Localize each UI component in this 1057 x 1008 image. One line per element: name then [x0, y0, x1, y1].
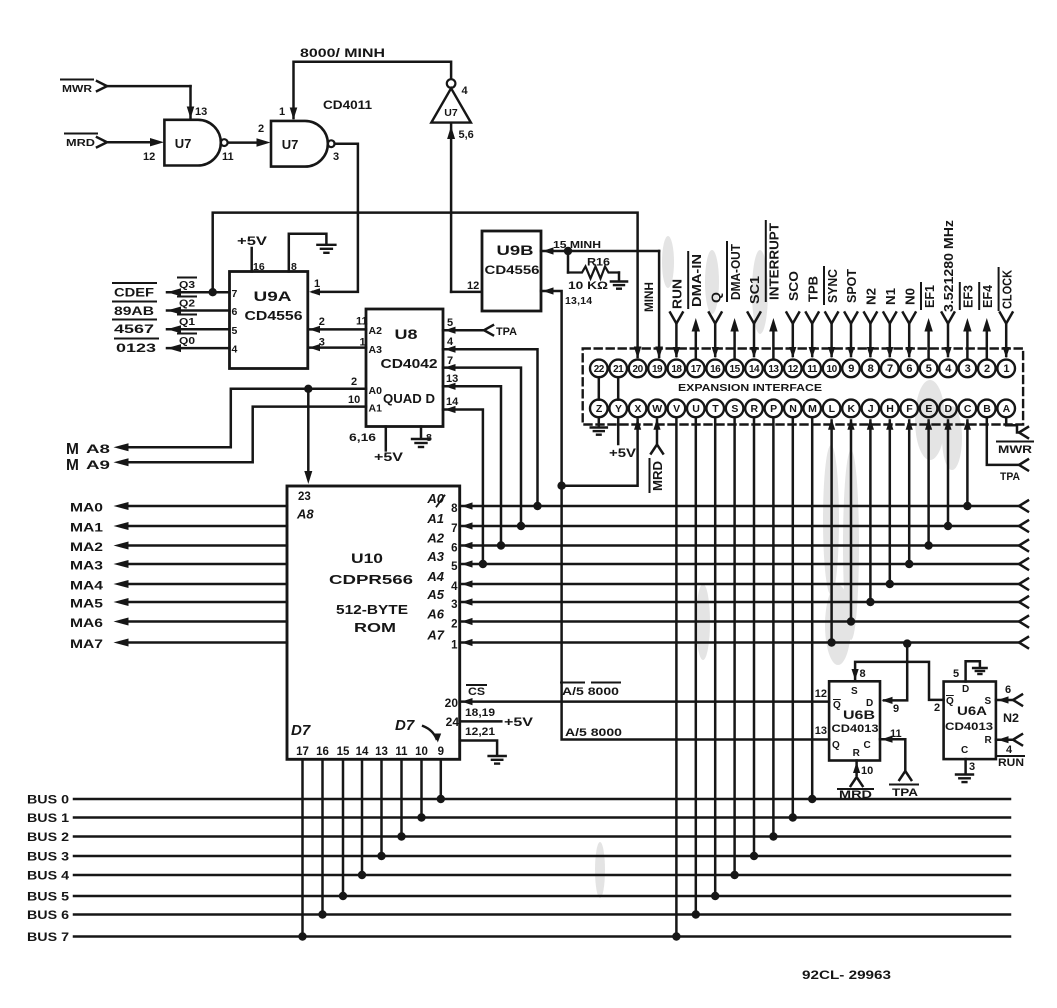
svg-text:5: 5: [232, 325, 238, 337]
power +5V at U9A pin 16: [237, 236, 267, 273]
svg-text:13: 13: [446, 373, 458, 385]
svg-text:U7: U7: [282, 137, 299, 152]
svg-text:P: P: [770, 403, 777, 415]
svg-text:512-BYTE: 512-BYTE: [336, 603, 408, 617]
svg-text:S: S: [731, 403, 738, 415]
connector pin V: [668, 400, 686, 418]
node junction Q3/8000 line: [209, 288, 217, 296]
svg-text:5: 5: [447, 317, 453, 329]
svg-text:2: 2: [351, 376, 357, 388]
svg-text:5: 5: [926, 363, 932, 375]
ic U9A CD4556: [230, 272, 308, 369]
svg-text:D: D: [866, 698, 873, 709]
svg-text:R: R: [985, 735, 993, 746]
wire BUS 3: [27, 852, 1010, 864]
svg-text:A5: A5: [426, 587, 444, 602]
svg-text:4: 4: [232, 344, 238, 356]
connector pin 21: [609, 360, 627, 378]
svg-text:A4: A4: [426, 569, 444, 584]
svg-text:14: 14: [356, 746, 369, 758]
ic U9B CD4556: [482, 231, 541, 311]
U10 pin 9 to BUS: [437, 746, 445, 803]
U10 pin 14 to BUS: [356, 746, 369, 879]
U9A output Q0 / 0123: [115, 334, 238, 356]
wire U10 A0 line to connector: [426, 491, 1028, 515]
svg-text:C: C: [961, 745, 968, 756]
svg-text:1: 1: [314, 278, 320, 290]
svg-text:12,21: 12,21: [465, 726, 495, 738]
ic U6B CD4013: [829, 681, 880, 760]
svg-text:EF4: EF4: [980, 284, 995, 308]
svg-text:A8: A8: [296, 507, 314, 522]
svg-text:6: 6: [906, 363, 912, 375]
svg-text:BUS 6: BUS 6: [27, 910, 69, 922]
svg-text:4: 4: [451, 581, 458, 593]
svg-text:A3: A3: [369, 344, 383, 356]
wire U6B pin 10 R to MRD: [838, 761, 873, 802]
svg-text:4: 4: [447, 336, 454, 348]
svg-text:MRD: MRD: [651, 461, 665, 491]
svg-text:MRD: MRD: [66, 137, 95, 149]
svg-text:W: W: [652, 403, 662, 415]
resistor R16 10K: [568, 251, 619, 292]
wire A7 to U6B pin 9 D: [882, 639, 912, 715]
connector pin 16: [706, 360, 724, 378]
svg-text:RUN: RUN: [670, 279, 685, 309]
ground at U6A pin 5 D: [953, 661, 987, 681]
svg-text:92CL- 29963: 92CL- 29963: [802, 970, 891, 982]
wire pin T to BUS 5: [711, 417, 719, 900]
ground at U6A pin 3 C: [956, 759, 975, 782]
svg-text:0123: 0123: [116, 343, 156, 355]
connector pin T: [706, 400, 724, 418]
wire pin 21 to pin Y: [617, 377, 620, 399]
svg-text:17: 17: [691, 364, 702, 375]
wire U6B pin 11 C to TPA: [880, 728, 918, 799]
svg-text:16: 16: [253, 261, 265, 273]
wire pin D to A1 line: [944, 419, 952, 531]
connector pin W: [648, 400, 666, 418]
connector pin 8: [862, 360, 880, 378]
svg-text:8000/ MINH: 8000/ MINH: [300, 48, 385, 60]
connector pin 6: [900, 360, 918, 378]
svg-text:N0: N0: [902, 288, 917, 305]
svg-text:EF1: EF1: [922, 285, 937, 308]
wire U10 to MA5: [70, 598, 287, 611]
svg-text:13: 13: [768, 364, 779, 375]
connector pin D: [939, 400, 957, 418]
connector pin 1: [997, 360, 1015, 378]
svg-text:Q1: Q1: [179, 316, 195, 328]
connector pin F: [900, 400, 918, 418]
signal N0 at pin 6: [902, 288, 917, 358]
svg-text:U: U: [692, 403, 699, 415]
label M A8: [66, 441, 111, 458]
connector pin 17: [687, 360, 705, 378]
svg-text:2: 2: [258, 123, 264, 135]
connector pin 14: [745, 360, 763, 378]
wire U8 pin4 to A0 line: [443, 336, 542, 510]
svg-text:13: 13: [375, 746, 388, 758]
svg-text:Q: Q: [832, 740, 840, 751]
ic U6A CD4013: [944, 682, 996, 760]
svg-text:8: 8: [291, 261, 297, 273]
svg-text:A2: A2: [426, 531, 444, 546]
connector pin 2: [978, 360, 996, 378]
connector pin U: [687, 400, 705, 418]
svg-text:1: 1: [451, 640, 458, 652]
label M A9: [66, 457, 111, 474]
wire pin J to A5 line: [866, 419, 874, 607]
svg-text:10: 10: [861, 765, 873, 777]
connector pin 3: [959, 360, 977, 378]
svg-text:RUN: RUN: [998, 757, 1024, 769]
wire U7 pin3 to U9A pin1: [309, 144, 358, 296]
svg-text:8: 8: [868, 363, 874, 375]
wire pin 22 to pin Z: [598, 377, 601, 399]
svg-text:+5V: +5V: [504, 717, 533, 729]
svg-text:A/5 8000: A/5 8000: [562, 686, 619, 698]
svg-text:X: X: [634, 403, 641, 415]
svg-text:1: 1: [1003, 363, 1009, 375]
wire pin N to BUS 1: [789, 417, 797, 822]
svg-text:3.521280 MHz: 3.521280 MHz: [941, 219, 956, 312]
connector pin A: [997, 400, 1015, 418]
wire pin K to A6 line: [847, 419, 855, 626]
svg-text:D7: D7: [291, 722, 311, 739]
wire U10 A6 line to connector: [426, 607, 1028, 631]
signal SCO at pin 12: [786, 271, 801, 358]
wire U8 A1 to MA9: [114, 394, 367, 466]
svg-text:R16: R16: [587, 257, 610, 269]
wire BUS 4: [27, 871, 1010, 883]
svg-text:4: 4: [1006, 744, 1013, 756]
svg-text:2: 2: [934, 702, 940, 714]
connector pin 13: [765, 360, 783, 378]
wire U10 A5 line to connector: [426, 587, 1028, 611]
svg-text:+5V: +5V: [374, 452, 403, 464]
svg-text:D7: D7: [395, 717, 415, 734]
wire pin S to BUS 4: [730, 417, 738, 879]
U6B pin 12 label: [815, 688, 827, 700]
wire pin R to BUS 3: [750, 417, 758, 860]
svg-text:14: 14: [749, 364, 760, 375]
svg-text:C: C: [964, 403, 972, 415]
connector pin 10: [823, 360, 841, 378]
svg-text:MA7: MA7: [70, 639, 103, 651]
svg-text:QUAD D: QUAD D: [383, 392, 435, 406]
svg-text:N2: N2: [1003, 713, 1019, 725]
signal INTERRUPT at pin 13: [766, 221, 782, 359]
wire BUS 2: [27, 832, 1010, 844]
svg-text:MWR: MWR: [62, 83, 92, 95]
svg-text:M: M: [66, 441, 79, 458]
wire U7 pin11 to pin2: [228, 138, 271, 146]
svg-text:Q2: Q2: [179, 298, 195, 310]
svg-text:EXPANSION INTERFACE: EXPANSION INTERFACE: [678, 383, 823, 394]
connector pin Y: [609, 400, 627, 418]
svg-text:A6: A6: [426, 607, 444, 622]
svg-text:4567: 4567: [114, 324, 154, 336]
nand gate U7 pins 12,13,11: [143, 106, 234, 166]
svg-text:TPA: TPA: [496, 326, 517, 338]
wire MRD input: [65, 134, 164, 150]
svg-text:U9B: U9B: [497, 243, 534, 258]
svg-text:2: 2: [319, 316, 325, 328]
wire BUS 1: [27, 813, 1010, 825]
signal N1 at pin 7: [883, 288, 898, 358]
signal EF3 at pin 3: [960, 283, 976, 359]
connector pin 22: [590, 360, 608, 378]
wire pin L to A7 line: [827, 419, 835, 647]
wire U8 pin14 to A3 line: [443, 396, 487, 568]
svg-text:2: 2: [451, 619, 457, 631]
svg-text:Y: Y: [615, 403, 622, 415]
svg-text:N1: N1: [883, 288, 898, 305]
ground at U10 pins 12,21: [460, 741, 506, 764]
connector pin 20: [629, 360, 647, 378]
svg-text:12: 12: [788, 364, 799, 375]
svg-text:A7: A7: [426, 628, 444, 643]
svg-text:5: 5: [451, 561, 458, 573]
signal RUN at pin 18: [670, 279, 685, 358]
svg-text:S: S: [851, 686, 858, 697]
connector pin 4: [939, 360, 957, 378]
svg-text:7: 7: [451, 523, 457, 535]
wire U10 A2 line to connector: [426, 531, 1028, 555]
svg-text:CD4556: CD4556: [245, 309, 303, 323]
svg-text:6: 6: [1005, 684, 1011, 696]
svg-text:5: 5: [953, 668, 959, 680]
connector pin C: [959, 400, 977, 418]
svg-text:3: 3: [965, 363, 971, 375]
svg-text:V: V: [673, 403, 680, 415]
svg-text:J: J: [868, 403, 874, 415]
svg-text:U6B: U6B: [843, 710, 875, 722]
connector pin 18: [668, 360, 686, 378]
wire U10 A7 line to connector: [426, 628, 1028, 652]
svg-text:SPOT: SPOT: [844, 269, 859, 303]
svg-text:A/5 8000: A/5 8000: [565, 727, 622, 739]
svg-text:7: 7: [887, 363, 893, 375]
svg-text:16: 16: [316, 746, 329, 758]
ground at R16: [611, 273, 627, 289]
wire pin U to BUS 6: [692, 417, 700, 919]
svg-text:13: 13: [195, 106, 207, 118]
svg-text:INTERRUPT: INTERRUPT: [767, 223, 782, 300]
svg-text:12: 12: [815, 688, 827, 700]
svg-text:2: 2: [984, 363, 990, 375]
wire inverter input from U9B pin 12: [447, 124, 480, 292]
svg-text:9: 9: [893, 703, 899, 715]
svg-text:15 MINH: 15 MINH: [553, 239, 601, 251]
svg-text:SC1: SC1: [747, 276, 762, 304]
label CD4011: [323, 100, 373, 112]
connector pin 5: [920, 360, 938, 378]
svg-text:MA2: MA2: [70, 542, 103, 554]
signal EF1 at pin 5: [921, 283, 937, 359]
svg-text:11: 11: [222, 151, 234, 163]
svg-text:R: R: [853, 748, 861, 759]
svg-text:12: 12: [143, 151, 155, 163]
connector pin Z: [590, 400, 608, 418]
svg-text:MA1: MA1: [70, 523, 104, 535]
signal SC1 at pin 14: [747, 276, 762, 358]
svg-text:Q: Q: [708, 292, 723, 303]
svg-text:BUS 4: BUS 4: [27, 871, 70, 883]
wire U10 to MA4: [70, 580, 287, 593]
svg-text:M: M: [66, 457, 79, 474]
svg-text:11: 11: [395, 746, 408, 758]
connector pin 15: [726, 360, 744, 378]
svg-text:M: M: [808, 403, 817, 415]
svg-text:TPA: TPA: [892, 787, 918, 799]
wire U9A pin2 to U8 pin11 (A2): [308, 316, 368, 334]
svg-text:K: K: [847, 403, 855, 415]
wire U10 to MA1: [70, 522, 287, 535]
connector pin S: [726, 400, 744, 418]
U10 pin 24 +5V: [446, 707, 534, 738]
wire MRD to pin W: [650, 419, 666, 492]
svg-text:15: 15: [730, 364, 741, 375]
connector pin 19: [648, 360, 666, 378]
svg-text:A8: A8: [86, 442, 111, 456]
svg-text:9: 9: [848, 363, 854, 375]
expansion interface dashed outline: [583, 349, 1023, 425]
U10 pin 11 to BUS: [395, 746, 408, 841]
signal SPOT at pin 9: [844, 269, 859, 358]
connector pin M: [803, 400, 821, 418]
svg-text:13: 13: [815, 725, 827, 737]
svg-text:SCO: SCO: [786, 271, 801, 301]
wire U6B pin 8 S to U6A pin 2: [852, 662, 944, 714]
signal EF4 at pin 2: [979, 283, 995, 359]
wire pin C to A0 line: [963, 419, 971, 510]
svg-text:17: 17: [296, 746, 309, 758]
svg-text:EF3: EF3: [961, 285, 976, 308]
svg-text:BUS 0: BUS 0: [27, 795, 69, 807]
svg-text:DMA-IN: DMA-IN: [689, 254, 704, 307]
svg-text:7: 7: [232, 288, 238, 300]
connector pin L: [823, 400, 841, 418]
connector pin 7: [881, 360, 899, 378]
nand gate U7 pins 1,2,3: [258, 106, 339, 167]
svg-text:15: 15: [337, 746, 350, 758]
svg-text:CD4011: CD4011: [323, 100, 373, 112]
svg-text:21: 21: [613, 364, 624, 375]
svg-text:N: N: [789, 403, 796, 415]
connector pin H: [881, 400, 899, 418]
wire U9B pin15 MINH net: [541, 239, 659, 255]
U10 pin 16 to BUS: [316, 746, 329, 919]
svg-text:CDPR566: CDPR566: [329, 572, 413, 587]
svg-text:U10: U10: [351, 551, 383, 566]
connector pin 12: [784, 360, 802, 378]
svg-text:BUS 5: BUS 5: [27, 892, 70, 904]
wire U10 A4 line to connector: [426, 569, 1028, 593]
power +5V at pin Y: [609, 417, 636, 460]
svg-text:Q: Q: [833, 700, 841, 711]
wire U9B pins 13,14: [541, 287, 592, 485]
svg-text:18,19: 18,19: [465, 707, 495, 719]
connector pin P: [765, 400, 783, 418]
wire MINH to expansion pin 19: [655, 251, 663, 359]
svg-text:MA3: MA3: [70, 561, 103, 573]
svg-text:E: E: [925, 403, 932, 415]
svg-text:U8: U8: [395, 327, 419, 342]
svg-text:20: 20: [633, 364, 644, 375]
svg-text:BUS 1: BUS 1: [27, 813, 70, 825]
svg-text:MA6: MA6: [70, 618, 103, 630]
wire pin H to A4 line: [886, 419, 894, 589]
svg-text:1: 1: [279, 106, 285, 118]
svg-text:19: 19: [652, 364, 663, 375]
svg-text:89AB: 89AB: [114, 306, 154, 318]
U10 pin 20 CS to U6B pin 12: [445, 683, 829, 711]
inverter U7 pins 5,6,4: [431, 79, 473, 141]
wire MWR input: [61, 80, 194, 119]
svg-text:BUS 3: BUS 3: [27, 852, 69, 864]
svg-text:22: 22: [594, 364, 605, 375]
wire pin V to BUS 7: [672, 417, 680, 941]
svg-text:U7: U7: [175, 136, 192, 151]
signal N2 at pin 8: [864, 288, 879, 358]
svg-text:Q: Q: [946, 696, 954, 707]
svg-text:CLOCK: CLOCK: [999, 269, 1014, 309]
ground at pin Z: [591, 417, 607, 435]
U10 pin 10 to BUS: [415, 746, 428, 822]
svg-text:CD4013: CD4013: [832, 723, 879, 735]
signal DMA-IN at pin 17: [688, 252, 704, 359]
connector pin 9: [842, 360, 860, 378]
svg-text:16: 16: [710, 364, 721, 375]
signal 3.521280 MHz at pin 4: [941, 219, 956, 358]
label 92CL- 29963: [802, 970, 891, 982]
wire pin X from U9B 13,14 node: [557, 419, 641, 490]
U10 pin 13 to BUS: [375, 746, 388, 860]
ic U8 CD4042 QUAD D: [366, 309, 443, 427]
wire pin B to TPA: [987, 417, 1028, 483]
svg-text:8: 8: [860, 668, 866, 680]
svg-text:24: 24: [446, 715, 460, 729]
wire U6A pin 4 R input RUN: [996, 734, 1024, 769]
svg-text:9: 9: [438, 746, 444, 758]
wire U8 A0 to MA8 and U10 pin 23: [114, 376, 367, 484]
svg-text:6,16: 6,16: [349, 432, 376, 444]
svg-text:C: C: [864, 740, 871, 751]
wire 8000/MINH to expansion pin 20: [213, 213, 642, 359]
U9A output Q1 / 4567: [113, 315, 238, 338]
svg-text:B: B: [983, 403, 991, 415]
wire U10 to MA2: [70, 542, 287, 555]
wire pin A to MWR: [997, 417, 1033, 456]
svg-text:3: 3: [319, 337, 325, 349]
wire U10 to MA6: [70, 618, 287, 631]
svg-text:MA4: MA4: [70, 581, 104, 593]
svg-text:BUS 7: BUS 7: [27, 932, 69, 944]
svg-text:3: 3: [969, 761, 975, 773]
svg-text:5,6: 5,6: [459, 129, 474, 141]
svg-text:CDEF: CDEF: [114, 288, 154, 300]
wire A/5 8000 to U6B pin 13: [562, 486, 830, 740]
U10 handwritten D7 labels: [291, 717, 441, 743]
signal Q at pin 16: [708, 292, 723, 358]
wire U8 pin5 TPA input: [443, 317, 517, 338]
connector pin 11: [803, 360, 821, 378]
svg-text:6: 6: [232, 306, 238, 318]
svg-text:A1: A1: [426, 511, 444, 526]
svg-text:3: 3: [451, 599, 457, 611]
